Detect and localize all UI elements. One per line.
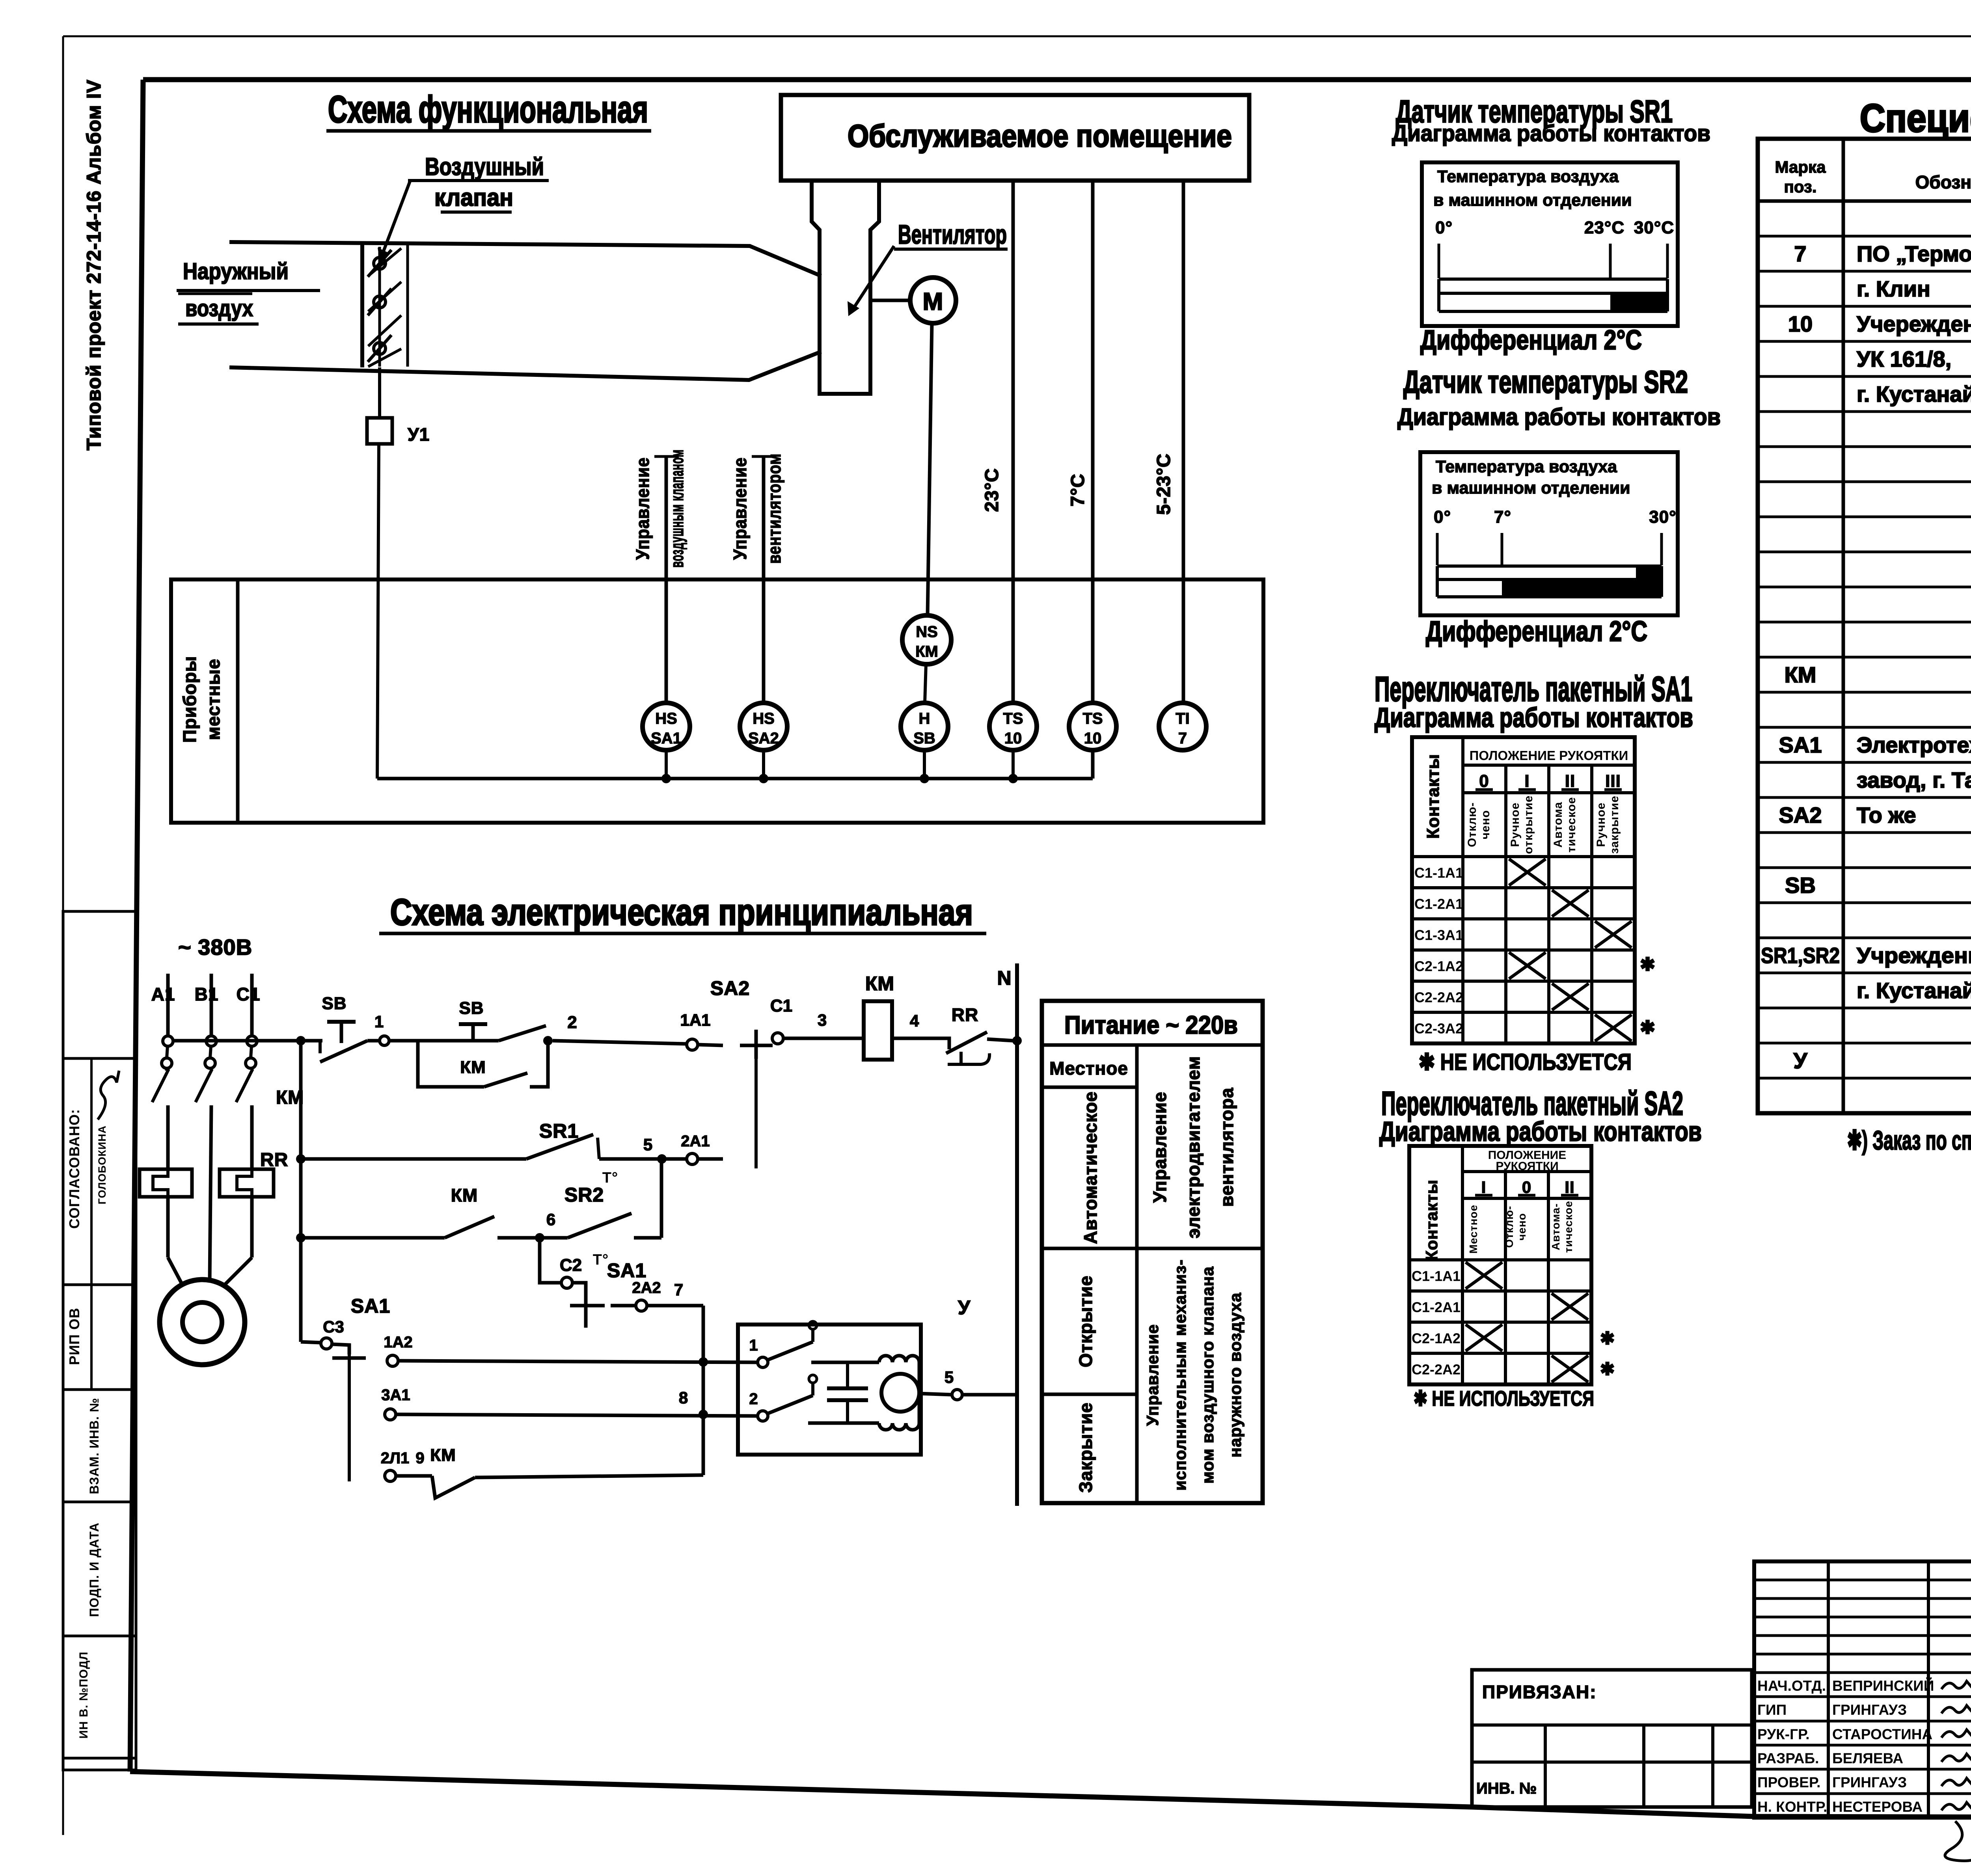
svg-text:С1-2А1: С1-2А1 (1412, 1299, 1461, 1315)
stop button SB (320, 994, 367, 1062)
svg-text:Автоматическое: Автоматическое (1080, 1091, 1101, 1244)
svg-text:Схема электрическая принци: Схема электрическая принципиальная (390, 891, 973, 933)
contactor label КМ (276, 1087, 304, 1108)
svg-text:SА1: SА1 (351, 1295, 390, 1317)
SA1 contact table (1412, 737, 1656, 1043)
device internal wiring and windings (808, 1356, 919, 1430)
svg-text:Воздушный: Воздушный (425, 153, 544, 181)
svg-text:10: 10 (1004, 730, 1022, 747)
svg-text:Местное: Местное (1467, 1205, 1479, 1254)
svg-text:Управление: Управление (1149, 1092, 1170, 1203)
svg-text:10: 10 (1084, 730, 1102, 747)
svg-text:6: 6 (546, 1210, 556, 1229)
device contact 1 (749, 1321, 817, 1367)
svg-text:✱: ✱ (1640, 954, 1656, 974)
heading переключатель SA2 (1379, 1085, 1702, 1147)
svg-text:НАЧ.ОТД.: НАЧ.ОТД. (1757, 1678, 1826, 1694)
wire 5-23°C from room (1182, 181, 1185, 703)
thermal relay RR heaters (140, 1149, 288, 1197)
svg-text:SА2: SА2 (748, 730, 779, 747)
stamp field Инв. № подл. (77, 1651, 90, 1738)
phase C1 (224, 974, 260, 1286)
instrument TS 10 (7°C sensor) (1069, 703, 1116, 750)
svg-text:Ручное: Ручное (1595, 802, 1608, 847)
svg-text:Автома: Автома (1552, 802, 1565, 848)
svg-text:9: 9 (415, 1449, 425, 1467)
svg-text:Вентилятор: Вентилятор (898, 220, 1007, 250)
svg-text:КМ: КМ (1785, 662, 1816, 687)
svg-text:Температура воздуха: Температура воздуха (1437, 167, 1619, 186)
instrument HS SA2 (740, 703, 787, 779)
served room box Обслуживаемое помещение (781, 95, 1249, 181)
svg-text:открытие: открытие (1522, 795, 1535, 854)
label Вентилятор with arrow (848, 220, 1008, 316)
svg-text:I: I (1524, 771, 1529, 791)
label Управление вентилятором (730, 453, 784, 564)
left margin label: Типовой проект 272-14-16 Альбом IV (83, 79, 105, 450)
row B wire terminal 3А1 to device contact 2 (381, 1386, 757, 1420)
stamp signature (98, 1071, 119, 1120)
svg-text:М: М (923, 288, 944, 315)
svg-text:г. Кустанай: г. Кустанай (1857, 382, 1971, 406)
svg-text:исполнительным механиз-: исполнительным механиз- (1171, 1259, 1189, 1490)
packet switch SA1 contact upper (570, 1259, 646, 1328)
outside air duct upper wall (229, 242, 821, 276)
svg-text:23°С: 23°С (1584, 218, 1624, 237)
svg-text:3А1: 3А1 (381, 1386, 410, 1404)
SA2 contact table (1409, 1146, 1615, 1384)
svg-text:7: 7 (1794, 241, 1806, 266)
svg-text:SВ: SВ (459, 999, 484, 1018)
svg-text:С1: С1 (237, 984, 261, 1004)
title block approval table привязан (1472, 1670, 1752, 1807)
svg-text:РАЗРАБ.: РАЗРАБ. (1757, 1750, 1819, 1766)
svg-text:2: 2 (567, 1013, 577, 1032)
svg-text:С2: С2 (560, 1256, 582, 1275)
svg-text:Приборы: Приборы (179, 656, 200, 743)
svg-text:5: 5 (643, 1135, 653, 1154)
wire motor to NS circle (928, 323, 932, 615)
junction (699, 1410, 708, 1419)
svg-text:Открытие: Открытие (1075, 1275, 1096, 1367)
svg-text:Управление: Управление (1143, 1324, 1162, 1426)
terminal 2А1 (681, 1133, 723, 1164)
svg-text:У1: У1 (408, 424, 430, 445)
svg-text:Наружный: Наружный (183, 259, 289, 284)
row A wire terminal 1А2 to device contact 1 (384, 1334, 757, 1366)
svg-text:3: 3 (818, 1011, 827, 1029)
wire 2 to 1А1 (553, 1013, 686, 1044)
svg-text:Автома-: Автома- (1550, 1203, 1562, 1250)
neutral bus N (997, 963, 1017, 1506)
svg-text:НS: НS (655, 710, 677, 727)
svg-text:SА1: SА1 (1779, 732, 1822, 757)
svg-text:✱: ✱ (1600, 1329, 1615, 1348)
svg-text:У: У (958, 1297, 971, 1319)
svg-text:II: II (1565, 771, 1575, 791)
svg-text:РУК-ГР.: РУК-ГР. (1757, 1726, 1810, 1742)
junction (657, 1154, 667, 1164)
svg-text:Контакты: Контакты (1423, 754, 1443, 838)
svg-text:SВ: SВ (1785, 873, 1816, 898)
footnote заказ по спецификации (1847, 1125, 1971, 1155)
label Дифференциал 2°С (1426, 616, 1647, 647)
svg-text:закрытие: закрытие (1608, 795, 1621, 854)
svg-text:ГРИНГАУЗ: ГРИНГАУЗ (1832, 1774, 1907, 1790)
svg-text:КМ: КМ (430, 1446, 456, 1465)
terminal 1А1 (680, 1011, 723, 1050)
device terminal 5 to N (919, 1368, 1017, 1400)
svg-text:4: 4 (910, 1012, 919, 1030)
branch to С2 (540, 1238, 561, 1283)
svg-text:тическое: тическое (1562, 1201, 1574, 1253)
svg-text:Управление: Управление (632, 457, 653, 560)
svg-text:С2-2А2: С2-2А2 (1412, 1362, 1461, 1378)
label 23°С (982, 468, 1002, 512)
instrument HS SA1 (643, 703, 690, 779)
title block staff table (1754, 1561, 1971, 1818)
phase B1 (195, 974, 219, 1280)
svg-text:С1-1А1: С1-1А1 (1412, 1268, 1461, 1284)
air valve body with hatch (362, 242, 408, 367)
SR2 contact diagram (1420, 452, 1678, 615)
junction (699, 1357, 708, 1367)
instrument TS 10 (23°C sensor) (989, 703, 1037, 779)
svg-text:RR: RR (952, 1004, 978, 1025)
specification table grid (1758, 139, 1971, 1113)
svg-text:тическое: тическое (1565, 797, 1578, 852)
svg-text:0°: 0° (1434, 507, 1451, 527)
svg-text:5: 5 (945, 1368, 954, 1386)
svg-text:БЕЛЯЕВА: БЕЛЯЕВА (1832, 1750, 1903, 1766)
svg-text:ПО „Термоприбор“: ПО „Термоприбор“ (1857, 241, 1971, 266)
svg-text:✱ НЕ ИСПОЛЬЗУЕТСЯ: ✱ НЕ ИСПОЛЬЗУЕТСЯ (1419, 1049, 1632, 1075)
svg-text:1А1: 1А1 (680, 1011, 710, 1029)
svg-text:С1-1А1: С1-1А1 (1414, 865, 1463, 881)
packet switch SA1 contact lower (332, 1295, 390, 1481)
junction (296, 1233, 306, 1243)
svg-text:7: 7 (674, 1280, 684, 1299)
junction (535, 1233, 544, 1243)
svg-text:Схема функциональная: Схема функциональная (328, 88, 648, 130)
svg-text:Температура воздуха: Температура воздуха (1436, 457, 1617, 476)
wire 7°C from room (1091, 181, 1095, 703)
actuator device У box (738, 1297, 971, 1455)
svg-text:2А1: 2А1 (681, 1133, 710, 1150)
svg-text:I: I (1481, 1178, 1487, 1196)
svg-text:КМ: КМ (865, 972, 894, 995)
svg-text:Т°: Т° (593, 1252, 609, 1268)
svg-text:г. Клин: г. Клин (1857, 276, 1930, 301)
svg-text:0: 0 (1479, 771, 1489, 791)
svg-text:2А2: 2А2 (632, 1279, 661, 1297)
svg-text:7°: 7° (1494, 507, 1511, 527)
svg-text:Т°: Т° (602, 1170, 618, 1186)
svg-text:ГРИНГАУЗ: ГРИНГАУЗ (1832, 1702, 1907, 1718)
label 7°С (1067, 473, 1088, 507)
svg-text:SВ: SВ (322, 994, 347, 1013)
node label У1 on valve rod (367, 418, 430, 445)
svg-text:С2-1А2: С2-1А2 (1414, 958, 1463, 974)
svg-text:ПРОВЕР.: ПРОВЕР. (1757, 1774, 1820, 1790)
junction (920, 774, 929, 783)
svg-text:Учереждение: Учереждение (1857, 311, 1971, 336)
svg-text:НЕСТЕРОВА: НЕСТЕРОВА (1832, 1799, 1923, 1815)
svg-text:С2-2А2: С2-2А2 (1414, 989, 1463, 1006)
svg-text:Ручное: Ручное (1509, 802, 1522, 847)
terminal С2 (560, 1256, 586, 1299)
row3 wire with KM and SR2 (301, 1184, 661, 1268)
title Схема электрическая принципиальная (379, 891, 986, 933)
svg-text:чено: чено (1479, 810, 1492, 840)
svg-text:7: 7 (1178, 730, 1187, 747)
wire valve rod down to bus (377, 367, 380, 779)
svg-text:СОГЛАСОВАНО:: СОГЛАСОВАНО: (66, 1109, 82, 1229)
SR1 contact diagram (1422, 162, 1678, 326)
svg-text:Питание ~ 220в: Питание ~ 220в (1064, 1011, 1238, 1039)
svg-text:SR1,SR2: SR1,SR2 (1761, 943, 1840, 968)
svg-text:Датчик температуры SR2: Датчик температуры SR2 (1403, 364, 1688, 399)
svg-text:ТS: ТS (1082, 710, 1103, 727)
svg-text:Управление: Управление (730, 457, 750, 560)
junction (661, 774, 671, 783)
stamp field РИП ОВ (66, 1308, 82, 1365)
svg-text:ИНВ. №: ИНВ. № (1476, 1780, 1537, 1797)
svg-text:г. Кустанай: г. Кустанай (1857, 978, 1971, 1003)
title Схема функциональная (326, 88, 651, 131)
svg-text:SА2: SА2 (1779, 803, 1822, 827)
svg-text:II: II (1565, 1178, 1574, 1196)
svg-text:ТS: ТS (1003, 710, 1023, 727)
svg-text:✱) Заказ по спецификации основ: ✱) Заказ по спецификации основного компл… (1847, 1125, 1971, 1155)
fan duct to room (812, 181, 879, 394)
svg-text:С3: С3 (323, 1317, 344, 1336)
svg-text:То же: То же (1857, 803, 1916, 827)
note не используется (1414, 1387, 1594, 1410)
svg-text:Н. КОНТР.: Н. КОНТР. (1757, 1799, 1827, 1815)
stamp field Подп. и дата (87, 1522, 101, 1617)
svg-text:КМ: КМ (451, 1185, 478, 1205)
thermal relay RR break contact (937, 1004, 1013, 1064)
svg-text:воздух: воздух (185, 296, 253, 321)
instrument TI 7 thermometer (1159, 703, 1206, 750)
instrument H SB (901, 703, 948, 779)
junction (296, 1154, 306, 1164)
start button SB (459, 999, 546, 1041)
svg-text:в машинном отделении: в машинном отделении (1433, 191, 1632, 210)
svg-text:Типовой проект 272-14-16 Аль: Типовой проект 272-14-16 Альбом IV (83, 79, 105, 450)
stamp field Согласовано (66, 1109, 82, 1229)
svg-text:Учреждение УК 161/8,: Учреждение УК 161/8, (1857, 943, 1971, 968)
svg-text:5-23°С: 5-23°С (1153, 453, 1174, 515)
power table rotated labels (1075, 1056, 1244, 1493)
svg-text:1: 1 (749, 1337, 758, 1354)
stamp field Взам. инв. № (87, 1398, 101, 1494)
svg-text:0: 0 (1522, 1178, 1531, 1196)
air valve louvre blades (368, 247, 391, 367)
svg-text:Закрытие: Закрытие (1075, 1402, 1096, 1492)
label Управление воздушным клапаном (632, 449, 687, 568)
svg-text:SВ: SВ (913, 730, 935, 747)
svg-text:Н: Н (919, 710, 930, 727)
svg-text:Спецификация элементов систе: Спецификация элементов системы П-8 (1860, 96, 1971, 140)
svg-text:Диаграмма работы контактов: Диаграмма работы контактов (1375, 702, 1693, 733)
svg-text:вентилятора: вентилятора (1217, 1088, 1237, 1207)
svg-text:23°С: 23°С (982, 468, 1002, 512)
svg-text:III: III (1605, 771, 1621, 791)
packet switch SA2 contact (710, 977, 773, 1168)
wire valve control (654, 456, 679, 703)
label Дифференциал 2°С (1420, 324, 1642, 355)
svg-text:30°С: 30°С (1634, 218, 1674, 237)
wire riser rows 7-A-B-C (702, 1306, 705, 1475)
heading датчик SR2 (1397, 364, 1721, 430)
svg-text:РУКОЯТКИ: РУКОЯТКИ (1496, 1160, 1558, 1173)
terminal С3 from bus (301, 1317, 349, 1354)
outside air duct lower wall (229, 352, 821, 380)
svg-text:электродвигателем: электродвигателем (1183, 1056, 1203, 1239)
KM self-hold contact (418, 1041, 548, 1087)
svg-text:поз.: поз. (1784, 177, 1816, 196)
svg-text:завод, г. Ташкент: завод, г. Ташкент (1857, 768, 1971, 792)
svg-text:местные: местные (203, 659, 224, 740)
svg-text:ВЕПРИНСКИЙ: ВЕПРИНСКИЙ (1832, 1677, 1934, 1694)
label 5-23°С (1153, 453, 1174, 515)
svg-text:30°: 30° (1649, 507, 1677, 527)
svg-text:SR1: SR1 (539, 1120, 579, 1142)
svg-text:Диаграмма работы контактов: Диаграмма работы контактов (1379, 1116, 1702, 1147)
device contact 2 (749, 1375, 817, 1421)
wire fan control (752, 456, 776, 703)
instrument bus wire (377, 750, 1093, 779)
svg-text:наружного воздуха: наружного воздуха (1226, 1293, 1244, 1458)
left stamp strip grid (63, 911, 136, 1770)
svg-text:С2-1А2: С2-1А2 (1412, 1330, 1461, 1347)
svg-text:Обозначение: Обозначение (1915, 172, 1971, 192)
svg-text:~ 380В: ~ 380В (178, 935, 252, 959)
svg-text:ИН В. №ПОДЛ: ИН В. №ПОДЛ (77, 1651, 90, 1738)
junction (296, 1036, 306, 1045)
fan motor M (870, 278, 956, 323)
svg-text:Диаграмма работы контактов: Диаграмма работы контактов (1392, 121, 1710, 146)
svg-text:мом воздушного клапана: мом воздушного клапана (1198, 1266, 1217, 1483)
row1 wire from phase A (173, 1039, 322, 1043)
note не используется (1419, 1049, 1632, 1075)
svg-text:ТI: ТI (1176, 710, 1190, 727)
svg-text:Контакты: Контакты (1422, 1179, 1441, 1261)
svg-text:ПОДП. И ДАТА: ПОДП. И ДАТА (87, 1522, 101, 1617)
contactor coil КМ (864, 972, 937, 1060)
svg-text:ГОЛОБОКИНА: ГОЛОБОКИНА (96, 1125, 108, 1205)
svg-text:КМ: КМ (915, 643, 938, 660)
svg-text:ВЗАМ. ИНВ. №: ВЗАМ. ИНВ. № (87, 1398, 101, 1494)
svg-text:СТАРОСТИНА: СТАРОСТИНА (1832, 1726, 1932, 1742)
svg-text:воздушным клапаном: воздушным клапаном (667, 449, 687, 568)
svg-text:Местное: Местное (1049, 1058, 1128, 1079)
svg-text:НS: НS (753, 710, 775, 727)
svg-text:✱: ✱ (1600, 1360, 1615, 1379)
wire 23°C from room (1012, 181, 1015, 703)
device motor (881, 1374, 919, 1412)
heading датчик SR1 (1392, 94, 1710, 146)
title Спецификация элементов системы П-8 (1860, 96, 1971, 140)
svg-text:SR2: SR2 (564, 1184, 604, 1206)
title block signatures (1941, 1681, 1971, 1861)
instrument NS KM (902, 615, 951, 703)
control bus from phase A (299, 1041, 303, 1342)
svg-text:Отклю-: Отклю- (1466, 802, 1479, 847)
svg-text:10: 10 (1788, 311, 1813, 336)
label Приборы местные (179, 656, 224, 743)
svg-text:NS: NS (916, 623, 938, 641)
svg-text:Марка: Марка (1775, 158, 1826, 176)
svg-text:1: 1 (374, 1012, 384, 1031)
svg-text:УК 161/8,: УК 161/8, (1857, 347, 1951, 371)
device capacitor (827, 1362, 868, 1423)
svg-text:SА2: SА2 (710, 977, 750, 999)
terminal С1 (770, 996, 864, 1044)
svg-text:1А2: 1А2 (384, 1334, 412, 1351)
svg-text:8: 8 (679, 1388, 688, 1407)
svg-text:КМ: КМ (460, 1058, 486, 1077)
wire node 1 (367, 1012, 499, 1045)
svg-text:ПОЛОЖЕНИЕ РУКОЯТКИ: ПОЛОЖЕНИЕ РУКОЯТКИ (1470, 748, 1628, 763)
svg-text:✱ НЕ ИСПОЛЬЗУЕТСЯ: ✱ НЕ ИСПОЛЬЗУЕТСЯ (1414, 1387, 1594, 1410)
svg-text:С1-2А1: С1-2А1 (1414, 896, 1463, 912)
svg-text:ГИП: ГИП (1757, 1702, 1787, 1718)
label Воздушный клапан with leader (378, 153, 549, 261)
svg-text:С1: С1 (770, 996, 792, 1015)
svg-text:Обслуживаемое помещение: Обслуживаемое помещение (848, 118, 1232, 153)
svg-text:Дифференциал 2°С: Дифференциал 2°С (1426, 616, 1647, 647)
svg-text:С2-3А2: С2-3А2 (1414, 1021, 1463, 1037)
svg-text:✱: ✱ (1640, 1017, 1656, 1038)
svg-text:SА1: SА1 (651, 730, 682, 747)
svg-text:7°С: 7°С (1067, 473, 1088, 507)
stamp field Голобокина (96, 1125, 108, 1205)
svg-text:в машинном отделении: в машинном отделении (1432, 479, 1630, 497)
svg-text:ПРИВЯЗАН:: ПРИВЯЗАН: (1482, 1682, 1597, 1702)
svg-text:Дифференциал 2°С: Дифференциал 2°С (1420, 324, 1642, 355)
label ~380В (178, 935, 252, 959)
svg-text:А1: А1 (151, 984, 175, 1004)
wire 7 with terminal 2А2 (611, 1279, 703, 1311)
specification rows text (1761, 206, 1971, 1108)
svg-text:0°: 0° (1435, 218, 1453, 237)
svg-text:Отклю-: Отклю- (1503, 1206, 1515, 1248)
local instruments box (171, 579, 1263, 823)
junction (543, 1036, 553, 1045)
heading переключатель SA1 (1375, 669, 1693, 733)
svg-text:2: 2 (749, 1390, 758, 1408)
svg-text:С1-3А1: С1-3А1 (1414, 927, 1463, 943)
svg-text:клапан: клапан (434, 184, 513, 211)
svg-text:RR: RR (260, 1149, 288, 1170)
svg-text:Электротехнический: Электротехнический (1857, 732, 1971, 757)
junction (1012, 1036, 1022, 1045)
svg-text:В1: В1 (195, 984, 219, 1004)
label Наружный воздух (177, 259, 320, 324)
junction (1008, 774, 1018, 783)
row C wire terminal 2Л1 with KM contact (381, 1446, 703, 1498)
motor 3-phase (160, 1280, 245, 1365)
svg-text:Диаграмма работы контактов: Диаграмма работы контактов (1397, 404, 1721, 430)
phase A1 (151, 974, 182, 1284)
svg-text:SА1: SА1 (607, 1259, 646, 1282)
svg-text:чено: чено (1516, 1213, 1528, 1241)
svg-text:У: У (1794, 1048, 1808, 1073)
power table Питание ~220в (1042, 1001, 1263, 1503)
